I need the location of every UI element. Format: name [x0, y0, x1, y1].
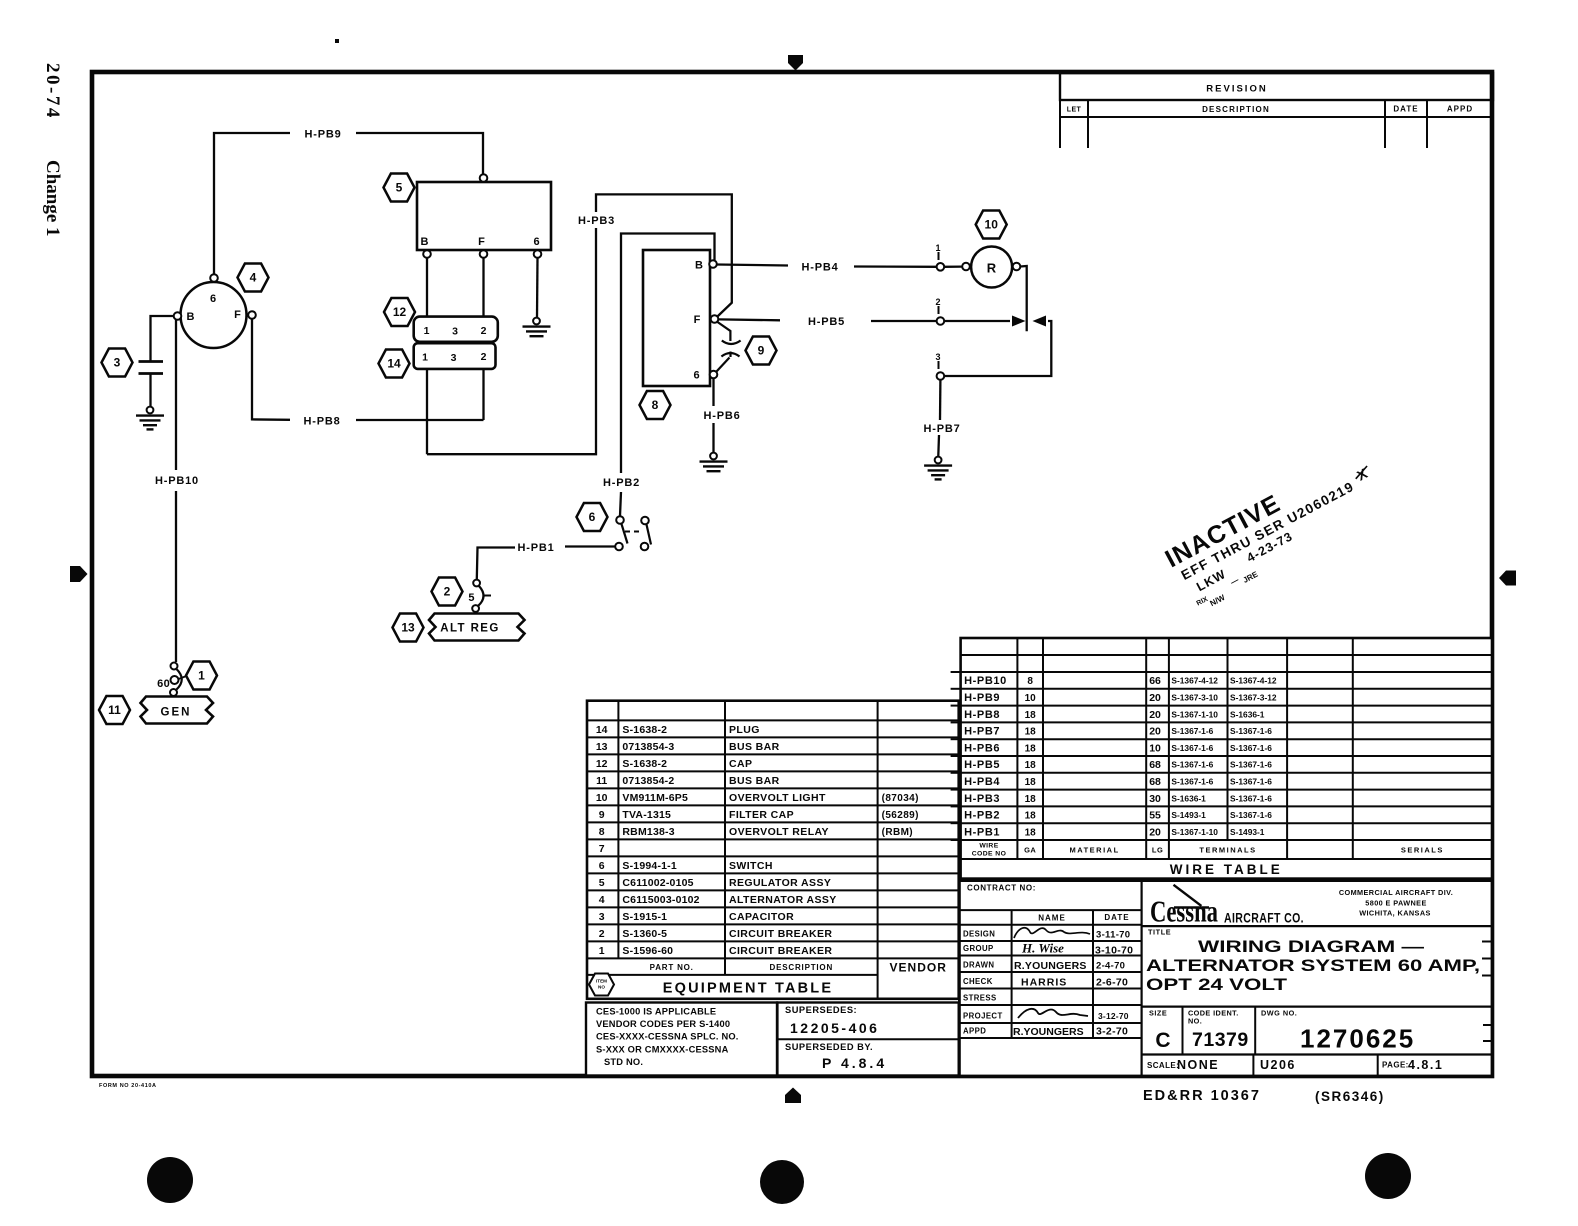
- svg-text:S-1367-3-12: S-1367-3-12: [1230, 693, 1277, 703]
- svg-text:3-2-70: 3-2-70: [1096, 1026, 1128, 1038]
- svg-text:9: 9: [758, 344, 765, 358]
- svg-text:H-PB5: H-PB5: [808, 316, 845, 328]
- svg-text:(SR6346): (SR6346): [1315, 1089, 1385, 1104]
- form number: [99, 1083, 157, 1089]
- svg-text:LG: LG: [1152, 846, 1163, 855]
- wire H-PB2 (overvolt relay B to switch): [603, 234, 715, 517]
- svg-text:10: 10: [596, 792, 608, 804]
- svg-text:H-PB3: H-PB3: [964, 793, 1000, 805]
- svg-text:2: 2: [599, 928, 605, 940]
- alternator assy item 4: [174, 274, 256, 348]
- svg-text:10: 10: [1149, 742, 1161, 754]
- svg-text:10: 10: [1025, 693, 1037, 704]
- svg-text:DESCRIPTION: DESCRIPTION: [1202, 105, 1270, 114]
- svg-text:6: 6: [210, 293, 216, 305]
- svg-text:S-1638-2: S-1638-2: [622, 758, 667, 770]
- bus bar GEN item 11: [141, 697, 214, 724]
- svg-text:S-1367-1-6: S-1367-1-6: [1230, 743, 1272, 753]
- svg-text:7: 7: [599, 843, 605, 855]
- capacitor item 3: [139, 362, 164, 407]
- svg-text:20: 20: [1149, 709, 1161, 721]
- svg-text:DATE: DATE: [1104, 913, 1129, 922]
- svg-text:66: 66: [1149, 675, 1161, 687]
- svg-text:H-PB9: H-PB9: [304, 129, 341, 141]
- svg-text:CHECK: CHECK: [963, 977, 993, 986]
- svg-text:18: 18: [1025, 777, 1037, 788]
- svg-text:5: 5: [468, 592, 474, 604]
- callout hexagon 9: [746, 337, 777, 365]
- svg-text:S-1915-1: S-1915-1: [622, 911, 667, 923]
- wire H-PB9 (alternator 6 terminal to regulator top): [214, 129, 483, 275]
- svg-text:STD NO.: STD NO.: [604, 1057, 643, 1067]
- svg-text:18: 18: [1025, 727, 1037, 738]
- svg-text:AIRCRAFT CO.: AIRCRAFT CO.: [1224, 911, 1304, 926]
- ground at H-PB7: [924, 457, 952, 480]
- wire regulator F pin down through connector: [482, 258, 484, 420]
- svg-text:6: 6: [589, 510, 596, 524]
- punch hole left: [147, 1157, 193, 1203]
- svg-text:20-74: 20-74: [42, 63, 63, 120]
- svg-text:S-1367-1-6: S-1367-1-6: [1230, 793, 1272, 803]
- right edge arrow marker: [1499, 571, 1516, 586]
- wire junction to relay coil return (terminal 3 loop): [935, 316, 1051, 380]
- svg-text:8: 8: [1027, 676, 1033, 687]
- svg-text:S-1367-1-6: S-1367-1-6: [1230, 777, 1272, 787]
- svg-text:TITLE: TITLE: [1148, 928, 1171, 937]
- wire regulator 6 pin to ground: [536, 258, 539, 317]
- svg-text:H-PB6: H-PB6: [703, 410, 740, 422]
- svg-text:3-12-70: 3-12-70: [1098, 1011, 1129, 1021]
- svg-text:4: 4: [599, 894, 605, 906]
- svg-text:H-PB3: H-PB3: [578, 215, 615, 227]
- svg-text:S-1367-1-6: S-1367-1-6: [1171, 726, 1213, 736]
- wire overvolt light to H-PB5 junction: [1020, 266, 1026, 331]
- svg-text:0713854-3: 0713854-3: [622, 741, 674, 753]
- wire H-PB3 (regulator B circuit to overvolt relay F): [427, 194, 732, 454]
- circuit breaker item 2 (5A): [468, 580, 491, 614]
- svg-text:1: 1: [198, 669, 205, 683]
- svg-text:H-PB7: H-PB7: [964, 726, 1000, 738]
- svg-text:4: 4: [250, 271, 257, 285]
- svg-text:S-1994-1-1: S-1994-1-1: [622, 860, 677, 872]
- callout hexagon 3: [102, 349, 133, 377]
- svg-text:WIRE TABLE: WIRE TABLE: [1170, 862, 1283, 877]
- svg-text:8: 8: [599, 826, 605, 838]
- svg-text:BUS BAR: BUS BAR: [729, 741, 780, 753]
- svg-text:3: 3: [599, 911, 605, 923]
- overvolt relay item 8: [643, 250, 718, 386]
- svg-text:NO.: NO.: [1188, 1017, 1202, 1026]
- svg-text:P 4.8.4: P 4.8.4: [822, 1055, 887, 1071]
- svg-text:MATERIAL: MATERIAL: [1069, 846, 1119, 855]
- svg-text:DWG NO.: DWG NO.: [1261, 1009, 1297, 1018]
- svg-text:13: 13: [596, 741, 608, 753]
- punch hole right: [1365, 1153, 1411, 1199]
- svg-text:18: 18: [1025, 743, 1037, 754]
- page number 20-74 (rotated margin text): [42, 63, 63, 120]
- svg-text:SERIALS: SERIALS: [1401, 846, 1444, 855]
- svg-text:CODE NO: CODE NO: [972, 851, 1007, 858]
- equipment table: [587, 701, 959, 999]
- svg-text:11: 11: [596, 775, 607, 787]
- svg-text:5800 E PAWNEE: 5800 E PAWNEE: [1365, 899, 1426, 908]
- svg-text:S-1367-3-10: S-1367-3-10: [1171, 693, 1218, 703]
- svg-text:S-1367-1-10: S-1367-1-10: [1171, 827, 1218, 837]
- svg-text:3: 3: [114, 356, 121, 370]
- svg-text:REVISION: REVISION: [1206, 84, 1267, 95]
- svg-text:2-4-70: 2-4-70: [1096, 961, 1125, 972]
- svg-text:H-PB8: H-PB8: [964, 709, 1000, 721]
- svg-text:H-PB7: H-PB7: [923, 423, 960, 435]
- wire H-PB7 (terminal 3 to ground): [923, 380, 960, 456]
- svg-text:(87034): (87034): [882, 793, 919, 804]
- ground at relay 6: [700, 453, 728, 472]
- svg-text:S-1636-1: S-1636-1: [1230, 709, 1265, 719]
- svg-text:4.8.1: 4.8.1: [1408, 1058, 1443, 1072]
- svg-text:3-11-70: 3-11-70: [1096, 930, 1130, 941]
- svg-text:ALTERNATOR SYSTEM 60 AMP,: ALTERNATOR SYSTEM 60 AMP,: [1146, 957, 1480, 975]
- svg-text:12: 12: [393, 305, 407, 319]
- svg-text:U206: U206: [1260, 1058, 1296, 1072]
- svg-text:S-1367-1-6: S-1367-1-6: [1230, 726, 1272, 736]
- svg-text:BUS BAR: BUS BAR: [729, 775, 780, 787]
- svg-text:S-1367-1-10: S-1367-1-10: [1171, 709, 1218, 719]
- wire H-PB1 (switch to circuit breaker 2): [477, 542, 615, 579]
- svg-text:CONTRACT NO:: CONTRACT NO:: [967, 884, 1036, 893]
- general notes box: [586, 1003, 777, 1076]
- svg-text:COMMERCIAL AIRCRAFT DIV.: COMMERCIAL AIRCRAFT DIV.: [1339, 888, 1453, 897]
- svg-text:2: 2: [481, 351, 487, 363]
- svg-text:DATE: DATE: [1393, 105, 1418, 114]
- svg-text:H-PB8: H-PB8: [303, 416, 340, 428]
- wire H-PB4 (relay B to overvolt light): [717, 243, 962, 274]
- svg-text:SCALE:: SCALE:: [1147, 1061, 1179, 1070]
- title block: [959, 881, 1492, 1076]
- svg-text:S-1638-2: S-1638-2: [622, 724, 667, 736]
- callout hexagon 1: [186, 662, 217, 690]
- bottom edge arrow marker: [785, 1088, 801, 1104]
- svg-text:S-1367-1-6: S-1367-1-6: [1230, 810, 1272, 820]
- svg-text:DESIGN: DESIGN: [963, 930, 995, 939]
- svg-text:REGULATOR ASSY: REGULATOR ASSY: [729, 877, 831, 889]
- svg-text:F: F: [478, 236, 485, 248]
- top edge arrow marker: [788, 55, 803, 71]
- svg-text:68: 68: [1149, 759, 1161, 771]
- svg-text:3: 3: [451, 352, 457, 364]
- overvolt light item 10: [962, 247, 1020, 288]
- switch item 6: [615, 516, 651, 550]
- svg-text:18: 18: [1025, 710, 1037, 721]
- svg-text:71379: 71379: [1192, 1029, 1249, 1051]
- callout hexagon 2: [432, 578, 463, 606]
- svg-text:5: 5: [396, 181, 403, 195]
- svg-text:6: 6: [533, 236, 539, 248]
- svg-text:55: 55: [1149, 810, 1161, 822]
- svg-text:VM911M-6P5: VM911M-6P5: [622, 792, 688, 804]
- punch hole center: [760, 1160, 804, 1204]
- svg-text:20: 20: [1149, 726, 1161, 738]
- callout hexagon 13: [393, 614, 424, 642]
- change 1 (rotated margin text): [42, 160, 63, 237]
- svg-text:C: C: [1155, 1029, 1170, 1052]
- wire H-PB8 (alternator F to regulator F pin): [252, 319, 484, 428]
- reference numbers below title block: [1143, 1088, 1385, 1104]
- svg-text:PROJECT: PROJECT: [963, 1012, 1003, 1021]
- revision table: [1060, 73, 1493, 148]
- svg-text:SUPERSEDED BY.: SUPERSEDED BY.: [785, 1042, 873, 1052]
- svg-text:H-PB10: H-PB10: [155, 475, 199, 487]
- svg-text:S-1493-1: S-1493-1: [1230, 827, 1265, 837]
- svg-text:3: 3: [452, 326, 458, 338]
- svg-text:DESCRIPTION: DESCRIPTION: [770, 963, 833, 972]
- svg-text:20: 20: [1149, 692, 1161, 704]
- svg-text:18: 18: [1025, 760, 1037, 771]
- svg-text:12205-406: 12205-406: [790, 1020, 879, 1036]
- svg-text:1: 1: [935, 243, 940, 253]
- svg-text:B: B: [695, 260, 703, 272]
- svg-text:EQUIPMENT TABLE: EQUIPMENT TABLE: [663, 980, 833, 996]
- svg-text:S-1360-5: S-1360-5: [622, 928, 667, 940]
- svg-text:DRAWN: DRAWN: [963, 961, 994, 970]
- svg-text:CES-XXXX-CESSNA SPLC. NO.: CES-XXXX-CESSNA SPLC. NO.: [596, 1032, 739, 1042]
- svg-text:H-PB1: H-PB1: [964, 826, 1000, 838]
- svg-text:30: 30: [1149, 793, 1161, 805]
- svg-text:S-1636-1: S-1636-1: [1171, 793, 1206, 803]
- svg-text:H-PB4: H-PB4: [964, 776, 1000, 788]
- svg-text:1270625: 1270625: [1300, 1024, 1415, 1054]
- svg-text:9: 9: [599, 809, 605, 821]
- svg-text:CES-1000 IS APPLICABLE: CES-1000 IS APPLICABLE: [596, 1007, 716, 1017]
- ground at regulator 6 pin: [523, 318, 551, 337]
- svg-text:F: F: [694, 314, 701, 326]
- svg-text:CIRCUIT BREAKER: CIRCUIT BREAKER: [729, 945, 832, 957]
- svg-text:2: 2: [481, 325, 487, 337]
- svg-text:10: 10: [985, 218, 999, 232]
- wire H-PB6 (relay 6 to ground): [703, 379, 740, 453]
- svg-text:11: 11: [108, 703, 121, 717]
- svg-text:60: 60: [157, 678, 170, 690]
- svg-text:B: B: [187, 311, 195, 323]
- svg-text:STRESS: STRESS: [963, 994, 997, 1003]
- svg-text:GEN: GEN: [161, 707, 192, 719]
- svg-text:GA: GA: [1024, 846, 1036, 855]
- svg-text:HARRIS: HARRIS: [1021, 977, 1067, 989]
- svg-text:ITEM: ITEM: [596, 979, 607, 984]
- svg-text:S-1367-4-12: S-1367-4-12: [1230, 676, 1277, 686]
- svg-text:S-1367-4-12: S-1367-4-12: [1171, 676, 1218, 686]
- svg-text:SIZE: SIZE: [1149, 1009, 1167, 1018]
- svg-text:ALTERNATOR ASSY: ALTERNATOR ASSY: [729, 894, 837, 906]
- svg-text:18: 18: [1025, 794, 1037, 805]
- svg-text:2: 2: [444, 585, 451, 599]
- svg-text:S-1367-1-6: S-1367-1-6: [1171, 760, 1213, 770]
- callout hexagon 6: [577, 503, 608, 531]
- svg-text:FORM NO 20-410A: FORM NO 20-410A: [99, 1083, 157, 1089]
- svg-text:NONE: NONE: [1177, 1058, 1219, 1072]
- svg-text:3: 3: [935, 352, 940, 362]
- wire H-PB5 (relay F to junction): [719, 297, 1026, 328]
- callout hexagon 5: [384, 174, 415, 202]
- svg-text:C6115003-0102: C6115003-0102: [622, 894, 699, 906]
- callout hexagon 11: [99, 696, 130, 724]
- svg-text:H. Wise: H. Wise: [1021, 941, 1064, 956]
- svg-text:18: 18: [1025, 827, 1037, 838]
- regulator assy item 5: [417, 174, 551, 258]
- svg-text:S-1367-1-6: S-1367-1-6: [1171, 743, 1213, 753]
- svg-text:APPD: APPD: [963, 1027, 986, 1036]
- svg-text:H-PB6: H-PB6: [964, 742, 1000, 754]
- svg-text:APPD: APPD: [1447, 105, 1473, 114]
- callout hexagon 8: [640, 391, 671, 419]
- svg-text:14: 14: [387, 357, 401, 371]
- svg-text:B: B: [421, 236, 429, 248]
- callout hexagon 12: [384, 298, 415, 326]
- svg-text:1: 1: [422, 352, 428, 364]
- svg-text:H-PB5: H-PB5: [964, 759, 1000, 771]
- svg-text:20: 20: [1149, 826, 1161, 838]
- svg-text:H-PB1: H-PB1: [517, 542, 554, 554]
- svg-text:GROUP: GROUP: [963, 944, 994, 953]
- svg-text:PAGE:: PAGE:: [1382, 1061, 1409, 1070]
- svg-text:Cessna: Cessna: [1150, 894, 1218, 929]
- svg-text:Change 1: Change 1: [42, 160, 63, 237]
- svg-text:H-PB4: H-PB4: [801, 262, 838, 274]
- wire alternator B to capacitor: [151, 316, 174, 361]
- svg-text:PLUG: PLUG: [729, 724, 760, 736]
- svg-text:F: F: [234, 309, 241, 321]
- svg-text:12: 12: [596, 758, 608, 770]
- svg-text:CAPACITOR: CAPACITOR: [729, 911, 794, 923]
- svg-text:NO: NO: [598, 985, 605, 990]
- svg-text:H-PB2: H-PB2: [964, 810, 1000, 822]
- svg-text:CAP: CAP: [729, 758, 752, 770]
- wire regulator B pin down through connector: [426, 258, 428, 454]
- wire H-PB10 (alternator B to circuit breaker 1): [155, 320, 199, 662]
- svg-text:SUPERSEDES:: SUPERSEDES:: [785, 1005, 857, 1015]
- svg-text:OVERVOLT LIGHT: OVERVOLT LIGHT: [729, 792, 826, 804]
- svg-text:68: 68: [1149, 776, 1161, 788]
- svg-text:OPT 24 VOLT: OPT 24 VOLT: [1146, 976, 1287, 994]
- svg-text:RBM138-3: RBM138-3: [622, 826, 674, 838]
- svg-text:TVA-1315: TVA-1315: [622, 809, 671, 821]
- svg-text:VENDOR CODES PER S-1400: VENDOR CODES PER S-1400: [596, 1019, 730, 1029]
- svg-text:2: 2: [935, 297, 940, 307]
- svg-text:14: 14: [596, 724, 608, 736]
- svg-text:1: 1: [599, 945, 605, 957]
- bus bar ALT REG item 13: [429, 614, 525, 641]
- cap item 12 / plug item 14 connector: [414, 317, 498, 369]
- svg-text:S-1493-1: S-1493-1: [1171, 810, 1206, 820]
- svg-text:LET: LET: [1067, 107, 1082, 114]
- svg-text:S-1367-1-6: S-1367-1-6: [1171, 777, 1213, 787]
- svg-text:1: 1: [424, 325, 430, 337]
- svg-text:WIRE: WIRE: [979, 843, 998, 850]
- svg-text:(56289): (56289): [882, 810, 919, 821]
- svg-text:S-1596-60: S-1596-60: [622, 945, 673, 957]
- left edge arrow marker: [70, 566, 88, 582]
- svg-text:H-PB2: H-PB2: [603, 477, 640, 489]
- svg-text:R.YOUNGERS: R.YOUNGERS: [1014, 960, 1087, 972]
- svg-text:5: 5: [599, 877, 605, 889]
- svg-text:ALT REG: ALT REG: [440, 623, 499, 635]
- svg-text:ED&RR 10367: ED&RR 10367: [1143, 1088, 1261, 1104]
- svg-text:PART NO.: PART NO.: [650, 963, 694, 972]
- svg-text:8: 8: [652, 398, 659, 412]
- callout hexagon 10: [976, 211, 1007, 239]
- svg-text:6: 6: [693, 370, 699, 382]
- circuit breaker item 1 (60A): [157, 663, 186, 697]
- svg-text:0713854-2: 0713854-2: [622, 775, 674, 787]
- svg-text:2-6-70: 2-6-70: [1096, 977, 1128, 989]
- svg-text:H-PB10: H-PB10: [964, 675, 1007, 687]
- svg-text:OVERVOLT RELAY: OVERVOLT RELAY: [729, 826, 829, 838]
- svg-text:18: 18: [1025, 811, 1037, 822]
- svg-text:6: 6: [599, 860, 605, 872]
- supersedes box: [777, 1003, 958, 1076]
- svg-text:H-PB9: H-PB9: [964, 692, 1000, 704]
- svg-text:TERMINALS: TERMINALS: [1199, 846, 1256, 855]
- handwritten INACTIVE stamp: [1161, 445, 1392, 617]
- svg-text:FILTER CAP: FILTER CAP: [729, 809, 794, 821]
- svg-text:SWITCH: SWITCH: [729, 860, 773, 872]
- svg-text:CIRCUIT BREAKER: CIRCUIT BREAKER: [729, 928, 832, 940]
- svg-text:WICHITA, KANSAS: WICHITA, KANSAS: [1359, 909, 1431, 918]
- ground at capacitor: [136, 407, 164, 430]
- svg-text:NAME: NAME: [1038, 914, 1066, 923]
- svg-text:S-1367-1-6: S-1367-1-6: [1230, 760, 1272, 770]
- callout hexagon 4: [238, 264, 269, 292]
- wire table: [951, 638, 1492, 879]
- svg-text:R.YOUNGERS: R.YOUNGERS: [1013, 1026, 1084, 1038]
- svg-text:13: 13: [401, 621, 415, 635]
- svg-text:R: R: [987, 261, 997, 276]
- svg-text:C611002-0105: C611002-0105: [622, 877, 693, 889]
- svg-text:WIRING DIAGRAM —: WIRING DIAGRAM —: [1198, 938, 1425, 956]
- svg-text:S-XXX OR CMXXXX-CESSNA: S-XXX OR CMXXXX-CESSNA: [596, 1044, 729, 1054]
- relay contact item 9: [717, 322, 741, 372]
- callout hexagon 14: [379, 350, 410, 378]
- svg-text:VENDOR: VENDOR: [890, 960, 947, 974]
- svg-text:3-10-70: 3-10-70: [1095, 945, 1133, 957]
- svg-text:(RBM): (RBM): [882, 827, 913, 838]
